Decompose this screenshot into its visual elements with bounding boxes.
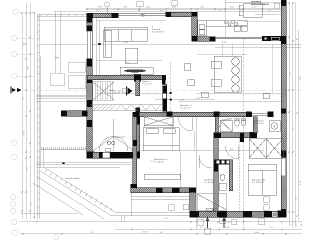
svg-text:P = 2.5 m²: P = 2.5 m² [254,122,264,125]
svg-text:vanjska terasa: vanjska terasa [112,136,126,139]
svg-text:vanjsko stubište: vanjsko stubište [65,177,81,180]
svg-text:Kupaonica: Kupaonica [222,120,233,122]
svg-text:P = 7.5 m²: P = 7.5 m² [142,83,152,86]
svg-text:P = 28.37 m²: P = 28.37 m² [152,31,164,34]
svg-text:P = 11.60 m²: P = 11.60 m² [252,181,264,184]
svg-text:3: 3 [273,124,275,128]
svg-text:VRT: VRT [55,58,60,60]
svg-text:P = 16 m²: P = 16 m² [154,161,163,164]
svg-text:P = 3.9 m²: P = 3.9 m² [204,181,214,184]
svg-text:P = 12.2 m²: P = 12.2 m² [180,107,191,110]
